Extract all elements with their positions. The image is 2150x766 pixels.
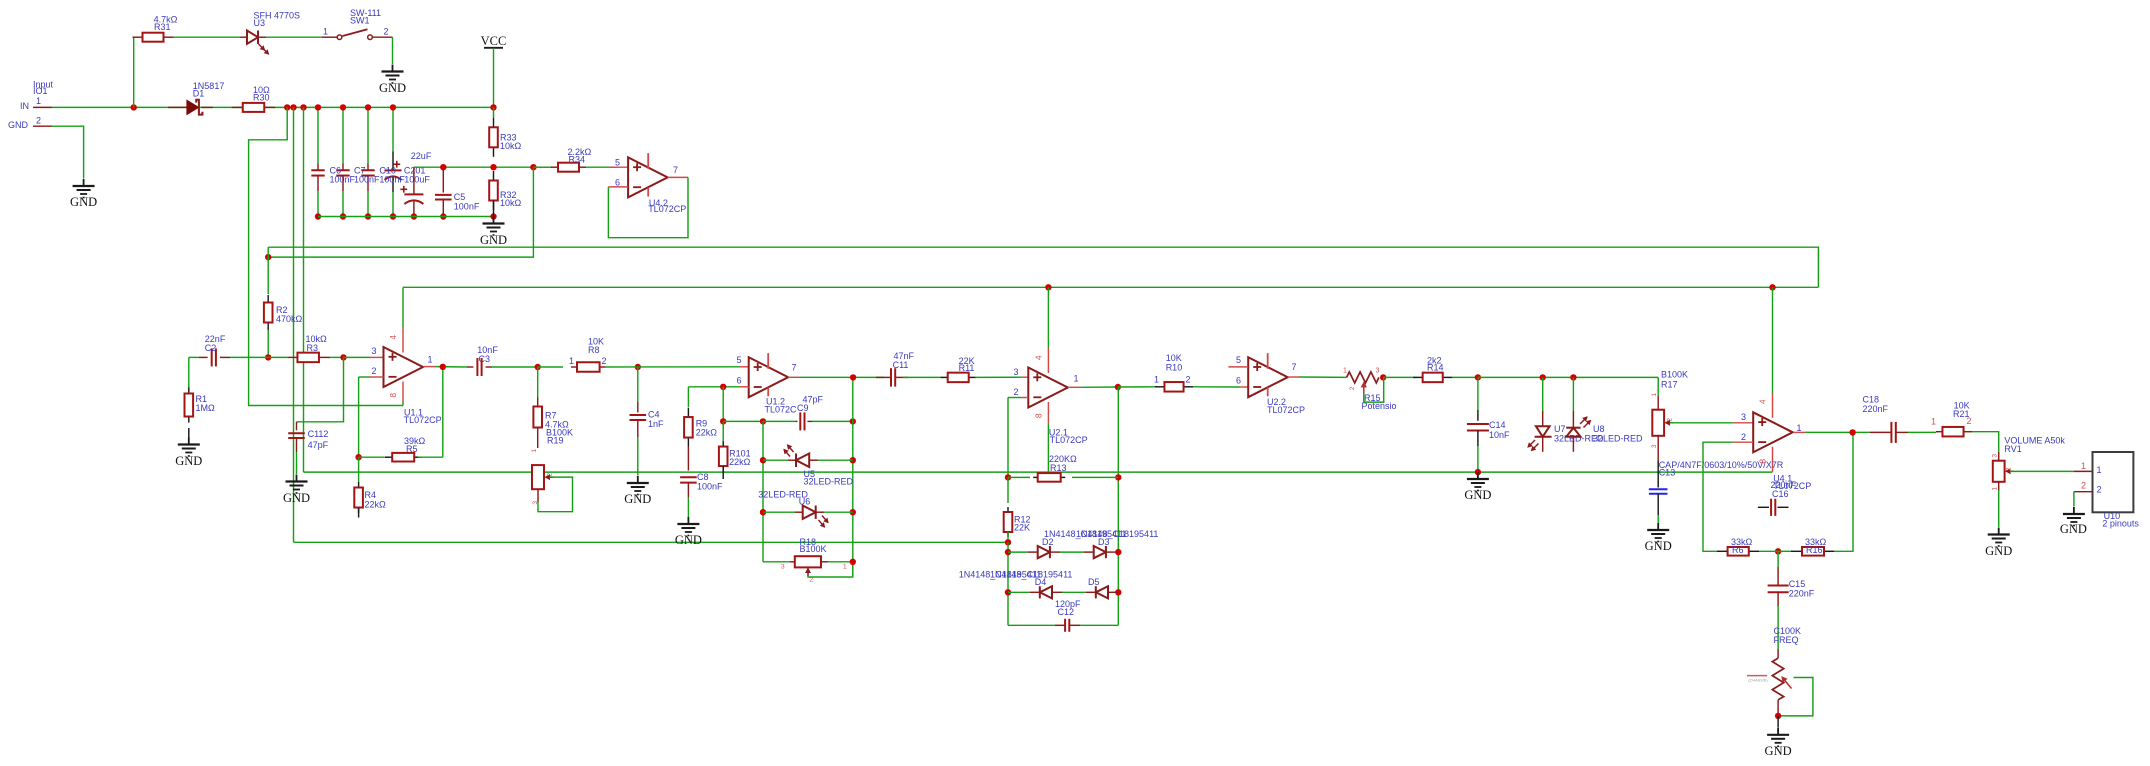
wire U1.1 output	[423, 366, 436, 368]
svg-text:1N4148_C18195411: 1N4148_C18195411	[1076, 529, 1158, 539]
svg-text:5: 5	[1236, 355, 1241, 365]
node junction C9 right	[850, 418, 856, 424]
svg-text:C3: C3	[479, 354, 491, 364]
node junction vref divider	[490, 164, 496, 170]
node junction FREQ bottom	[1775, 713, 1781, 719]
node junction R14 out	[1475, 374, 1481, 380]
svg-text:GND: GND	[70, 195, 97, 209]
capacitor C9 47pF	[795, 420, 797, 422]
wire output down right rail of diode cluster	[1117, 387, 1119, 625]
svg-text:22kΩ: 22kΩ	[729, 457, 751, 467]
wire U2.2 output	[1288, 376, 1299, 378]
op-amp U1.1 TL072CP	[384, 347, 424, 387]
svg-text:2: 2	[372, 366, 377, 376]
svg-text:GND: GND	[1645, 539, 1672, 553]
ground below FREQ pot	[1777, 716, 1779, 728]
wire R8 to U1.2 pin5	[606, 366, 740, 368]
svg-text:2: 2	[2006, 467, 2013, 471]
potentiometer R18 B100K	[763, 561, 790, 563]
op-amp U1.1 pin4 stub to vcc bus	[402, 287, 404, 327]
resistor R10 10K	[1155, 386, 1165, 388]
capacitor C15 220nF	[1777, 551, 1779, 567]
svg-text:1: 1	[323, 27, 328, 37]
node junction diode row2 right	[1115, 589, 1121, 595]
wire U1.2 output	[788, 376, 800, 378]
svg-text:1nF: 1nF	[648, 419, 664, 429]
svg-text:1: 1	[1797, 423, 1802, 433]
ground below C13	[1657, 523, 1659, 530]
svg-text:C16: C16	[1772, 489, 1789, 499]
potentiometer R15 Potensio zigzag	[1347, 372, 1379, 383]
svg-text:D5: D5	[1088, 577, 1100, 587]
svg-text:2: 2	[1014, 387, 1019, 397]
svg-text:R5: R5	[406, 444, 418, 454]
svg-text:2: 2	[602, 356, 607, 366]
svg-text:100nF: 100nF	[330, 175, 356, 185]
resistor R32 10k	[493, 171, 495, 181]
svg-text:32LED-RED: 32LED-RED	[1593, 433, 1643, 443]
svg-text:8: 8	[1034, 413, 1044, 418]
wire IN rail	[52, 106, 494, 108]
resistor R4 22k	[358, 457, 360, 482]
diode D2 1N4148	[1008, 551, 1028, 553]
node junction pin6	[720, 384, 726, 390]
node junction R2 bottom	[265, 354, 271, 360]
node junction rail A	[284, 104, 290, 110]
capacitor C5 100nF	[442, 167, 444, 192]
resistor R30 10ohm	[232, 106, 243, 108]
capacitor C2 22nF	[189, 356, 199, 358]
wire output to R10	[1118, 386, 1157, 388]
node junction vref tap	[530, 164, 536, 170]
svg-text:GND: GND	[2060, 522, 2087, 536]
svg-text:2: 2	[1349, 386, 1356, 390]
wire R11 to U2.1 pin3	[976, 376, 1021, 378]
svg-text:2 pinouts: 2 pinouts	[2102, 518, 2139, 528]
svg-text:10nF: 10nF	[1489, 430, 1510, 440]
svg-text:1: 1	[36, 96, 41, 106]
node junction R101 top	[720, 418, 726, 424]
wire U2.1 output	[1068, 386, 1081, 388]
svg-text:VCC: VCC	[481, 34, 507, 48]
node junction R6 R16 C15	[1775, 548, 1781, 554]
node junction rail at R33	[490, 104, 496, 110]
svg-text:2: 2	[547, 473, 554, 477]
LED U7 32LED-RED	[1540, 374, 1546, 380]
svg-text:2: 2	[1186, 375, 1191, 385]
capacitor C8 100nF	[680, 476, 697, 478]
svg-text:B100K: B100K	[1661, 370, 1688, 380]
svg-text:7: 7	[1292, 362, 1297, 372]
ground at U10 pin2	[2073, 507, 2075, 514]
wire GND bus y472	[304, 471, 1773, 473]
node junction R13 left	[1005, 474, 1011, 480]
wire vertical rail riser x293 down to lower bus	[293, 107, 295, 542]
wire R34 to U4.2 pin5	[586, 166, 618, 168]
svg-text:C9: C9	[797, 403, 809, 413]
op-amp U1.2 TL072CP	[749, 357, 789, 397]
capacitor C10 100nF	[367, 164, 369, 171]
svg-text:3: 3	[372, 346, 377, 356]
svg-text:GND: GND	[1765, 744, 1792, 758]
svg-text:IN: IN	[20, 101, 29, 111]
svg-text:220nF: 220nF	[1863, 404, 1889, 414]
svg-text:C14: C14	[1489, 420, 1506, 430]
svg-text:100nF: 100nF	[379, 175, 405, 185]
svg-text:R17: R17	[1661, 379, 1678, 389]
wire U4.2 output and feedback loop	[668, 176, 688, 178]
LED U5 32LED-RED	[760, 457, 766, 463]
wire U1.2 pin6 net	[688, 386, 740, 388]
node junction C3 out	[535, 364, 541, 370]
resistor R16 33k	[1791, 550, 1802, 552]
resistor R101 22k	[722, 421, 724, 441]
wire R15 wiper loop	[1364, 377, 1384, 402]
svg-text:GND: GND	[8, 120, 29, 130]
wire R31 to LED U3	[174, 36, 241, 38]
svg-text:1: 1	[2081, 461, 2086, 471]
svg-text:C4: C4	[648, 409, 660, 419]
wire U1.1 pin2 from feedback	[359, 376, 370, 378]
svg-text:D4: D4	[1035, 577, 1047, 587]
red rail segments around D1 and R30	[168, 106, 187, 108]
capacitor C201 100uF electrolytic	[385, 169, 402, 171]
potentiometer R17 B100K	[1657, 377, 1659, 396]
resistor R3 10k	[288, 356, 297, 358]
wire input GND pin to ground	[52, 126, 84, 178]
svg-text:R8: R8	[588, 345, 600, 355]
op-amp U4.1 pin4 stub to vcc bus	[1769, 284, 1775, 290]
switch SW1 SW-111	[322, 36, 337, 38]
LED U6 32LED-RED	[760, 509, 766, 515]
wire R18 wiper loop	[807, 569, 809, 577]
svg-text:GND: GND	[480, 233, 507, 247]
svg-text:1: 1	[1154, 375, 1159, 385]
capacitor C11 47nF	[876, 376, 891, 378]
node junction R12 bottom at bus	[1005, 539, 1011, 545]
node junction U1.1 output	[440, 364, 446, 370]
svg-text:10K: 10K	[1166, 353, 1182, 363]
op-amp U2.1 pin4 stub to vcc bus	[1045, 284, 1051, 290]
wire RV1 wiper to U10	[2010, 470, 2074, 472]
wire vref bus y247 long	[268, 247, 1818, 287]
resistor R5 39k	[359, 456, 385, 458]
svg-text:TL072CP: TL072CP	[1267, 405, 1305, 415]
wire R3 node to U1.1 pin3	[344, 356, 371, 358]
svg-text:8: 8	[1758, 459, 1768, 464]
svg-text:220nF: 220nF	[1789, 589, 1815, 599]
node junction at riser to R31	[131, 104, 137, 110]
capacitor C18 220nF	[1870, 431, 1891, 433]
svg-text:R13: R13	[1050, 463, 1067, 473]
wire R10 to U2.2 pin6	[1193, 386, 1240, 388]
capacitor C14 10nF	[1477, 377, 1479, 410]
svg-text:6: 6	[615, 177, 620, 187]
wire C6 top drop	[317, 107, 319, 163]
capacitor C16 220nF floating	[1758, 506, 1769, 508]
svg-text:D2: D2	[1042, 537, 1054, 547]
svg-text:1: 1	[1074, 374, 1079, 384]
LED U8 32LED-RED	[1570, 374, 1576, 380]
wire lower bus y542	[294, 541, 1009, 543]
svg-text:TL072CP: TL072CP	[404, 415, 442, 425]
capacitor C13 4n7 blue	[1657, 436, 1659, 461]
svg-text:R11: R11	[959, 363, 975, 373]
diode D5 1N4148	[1086, 591, 1096, 593]
svg-text:10kΩ: 10kΩ	[500, 198, 522, 208]
op-amp U2.1 TL072CP	[1028, 368, 1068, 408]
svg-text:R19: R19	[547, 436, 564, 446]
resistor R6 33k	[1717, 550, 1728, 552]
wire C10 top drop	[367, 107, 369, 163]
wire pin6 down to C9 level	[722, 387, 724, 422]
wire vref bus y167	[414, 166, 552, 168]
svg-text:4: 4	[388, 335, 398, 340]
svg-text:RV1: RV1	[2004, 444, 2021, 454]
wire R16 up to output node	[1834, 432, 1853, 551]
svg-text:GND: GND	[675, 533, 702, 547]
svg-text:1: 1	[428, 355, 433, 365]
wire U1.1 pin8 feed: rail down-left-down-right	[249, 107, 403, 405]
svg-text:R34: R34	[569, 155, 586, 165]
svg-text:1: 1	[531, 449, 538, 453]
svg-text:TL072C: TL072C	[765, 404, 798, 414]
svg-text:R16: R16	[1806, 545, 1823, 555]
svg-text:3: 3	[1651, 444, 1658, 448]
resistor R8 10K	[571, 366, 577, 368]
connector U10 2 pinouts	[2093, 452, 2134, 512]
node junction U2.1 output	[1115, 384, 1121, 390]
svg-text:IO1: IO1	[33, 86, 48, 96]
svg-text:U3: U3	[254, 18, 266, 28]
node junction R13 right	[1115, 474, 1121, 480]
resistor R9 22k	[687, 387, 689, 408]
svg-text:R3: R3	[307, 343, 319, 353]
svg-text:TL072CP: TL072CP	[648, 204, 686, 214]
node junction diode row2 left	[1005, 589, 1011, 595]
resistor R1 1M	[188, 357, 190, 390]
potentiometer RV1 VOLUME A50k	[1998, 452, 2000, 461]
svg-text:7: 7	[792, 362, 797, 372]
svg-text:1N4148_C18195411: 1N4148_C18195411	[990, 570, 1072, 580]
svg-text:8: 8	[388, 393, 398, 398]
svg-text:7: 7	[673, 165, 678, 175]
wire SW1 to ground	[392, 37, 394, 64]
potentiometer R19 B100K	[532, 465, 544, 489]
wire LED ladder right rail	[852, 377, 854, 577]
capacitor C3 10nF	[467, 366, 473, 368]
wire R19 wiper loop	[538, 477, 573, 512]
node junction diode row1 right	[1115, 549, 1121, 555]
svg-text:GND: GND	[624, 492, 651, 506]
svg-text:2: 2	[1967, 416, 1972, 426]
op-amp U4.1 TL072CP	[1753, 412, 1793, 452]
wire R21 to RV1	[1972, 432, 1999, 452]
wire U10 pin2 to ground	[2074, 491, 2093, 493]
svg-text:C12: C12	[1058, 607, 1075, 617]
node junction C14 at gnd bus	[1475, 469, 1481, 475]
ground below C8	[687, 517, 689, 524]
svg-text:1: 1	[569, 356, 574, 366]
op-amp U4.2 TL072CP	[628, 157, 668, 197]
resistor R33 10k	[493, 107, 495, 118]
svg-text:C13: C13	[1659, 468, 1676, 478]
svg-text:1: 1	[2097, 465, 2102, 475]
diode D3 1N4148	[1084, 551, 1094, 553]
svg-text:D3: D3	[1098, 537, 1110, 547]
svg-text:3: 3	[1992, 454, 1999, 458]
resistor R2 470k	[267, 247, 269, 294]
svg-text:100nF: 100nF	[697, 481, 723, 491]
node junction R5 left	[355, 454, 361, 460]
op-amp U1.1 pin8 stub	[402, 382, 404, 402]
svg-text:SW1: SW1	[350, 15, 370, 25]
node junction U1.2 output	[850, 374, 856, 380]
svg-text:470kΩ: 470kΩ	[276, 314, 303, 324]
node junction R8 out	[635, 364, 641, 370]
svg-text:C11: C11	[893, 360, 909, 370]
node junction R15 right	[1380, 374, 1386, 380]
wire U2.2 pin5 stub	[1228, 366, 1248, 368]
svg-text:TL072CP: TL072CP	[1050, 435, 1088, 445]
resistor R7 4.7k	[537, 367, 539, 398]
svg-text:(CHASSIS): (CHASSIS)	[1748, 678, 1768, 682]
op-amp U2.1 pin8 stub down	[1047, 402, 1049, 424]
wire FREQ wiper loop	[1778, 678, 1813, 716]
node junction U4.1 output	[1849, 429, 1855, 435]
svg-text:R6: R6	[1732, 545, 1744, 555]
ground below SW1	[392, 65, 394, 72]
svg-text:22K: 22K	[1014, 523, 1030, 533]
svg-text:32LED-RED: 32LED-RED	[804, 476, 854, 486]
svg-text:C2: C2	[205, 343, 217, 353]
svg-text:47pF: 47pF	[308, 440, 329, 450]
ground input GND	[83, 179, 85, 186]
wire vref tap down and left	[268, 167, 533, 257]
svg-text:1: 1	[1992, 487, 1999, 491]
svg-text:100nF: 100nF	[454, 201, 480, 211]
svg-text:GND: GND	[175, 454, 202, 468]
svg-text:FREQ: FREQ	[1774, 635, 1799, 645]
wire U3 to SW1	[266, 36, 322, 38]
svg-text:2: 2	[384, 27, 389, 37]
wire node to C112	[297, 357, 344, 421]
LED U3 SFH 4770S	[240, 36, 247, 38]
svg-text:6: 6	[1236, 376, 1241, 386]
wire vertical rail riser x303 down to gnd bus	[303, 107, 305, 472]
resistor R31 4.7k	[133, 36, 143, 38]
capacitor C4 1nF	[637, 367, 639, 402]
wire U4.1 pin2 feedback loop	[1734, 441, 1754, 443]
svg-text:R10: R10	[1166, 362, 1183, 372]
node junction vref at R2 riser	[265, 254, 271, 260]
svg-text:2: 2	[1741, 432, 1746, 442]
svg-text:3: 3	[1014, 367, 1019, 377]
wire R17 wiper to U4.1 pin3	[1670, 422, 1734, 424]
svg-text:3: 3	[1741, 412, 1746, 422]
capacitor C12 120pF	[1008, 624, 1055, 626]
ground below R1	[188, 438, 190, 445]
svg-text:GND: GND	[283, 491, 310, 505]
svg-text:C112: C112	[308, 429, 329, 439]
node junction diode row1 left	[1005, 549, 1011, 555]
svg-text:R14: R14	[1427, 363, 1444, 373]
node junction rail C	[300, 104, 306, 110]
svg-text:GND: GND	[1985, 544, 2012, 558]
svg-text:D1: D1	[193, 89, 205, 99]
op-amp U2.2 TL072CP	[1248, 357, 1288, 397]
svg-text:C15: C15	[1789, 579, 1806, 589]
wire U4.1 output	[1793, 431, 1805, 433]
svg-text:22uF: 22uF	[411, 151, 432, 161]
svg-text:R4: R4	[365, 490, 377, 500]
ground below C4	[637, 476, 639, 483]
svg-text:5: 5	[615, 157, 620, 167]
svg-text:1: 1	[843, 564, 847, 571]
svg-text:2: 2	[1667, 418, 1674, 422]
svg-text:GND: GND	[379, 81, 406, 95]
svg-text:4: 4	[1758, 399, 1768, 404]
svg-text:6: 6	[737, 375, 742, 385]
capacitor 22uF electrolytic	[413, 167, 415, 194]
svg-text:R31: R31	[154, 22, 171, 32]
node junction R3 output	[340, 354, 346, 360]
svg-text:1: 1	[1343, 368, 1347, 375]
wire C9 feedback row	[723, 420, 763, 422]
resistor R34 2.2k	[533, 166, 552, 168]
capacitor C112 47pF	[296, 422, 298, 431]
svg-text:3: 3	[781, 564, 785, 571]
svg-text:C8: C8	[697, 472, 709, 482]
wire C7 top drop	[342, 107, 344, 163]
resistor R12 22K	[1007, 477, 1009, 503]
diode D4 1N4148	[1008, 591, 1030, 593]
svg-text:2: 2	[2081, 481, 2086, 491]
wire signal bus to volume pot	[1478, 376, 1658, 378]
wire R5 to U1.1 output	[442, 367, 444, 458]
wire U2.1 pin2 feedback	[1008, 397, 1021, 399]
diode D1 1N5817	[187, 101, 198, 115]
svg-text:22kΩ: 22kΩ	[365, 499, 387, 509]
wire C3 node to R8	[538, 366, 563, 368]
wire R2 node to R3	[268, 356, 288, 358]
svg-text:1: 1	[1931, 417, 1936, 427]
resistor R21 10K	[1936, 431, 1942, 433]
ground below RV1	[1998, 528, 2000, 535]
svg-text:GND: GND	[1464, 488, 1491, 502]
svg-text:4: 4	[1034, 355, 1044, 360]
svg-text:2: 2	[36, 116, 41, 126]
ground below C112	[296, 475, 298, 482]
wire vcc bus y287 long	[403, 286, 1818, 288]
node junction C9 left	[760, 418, 766, 424]
svg-text:1MΩ: 1MΩ	[196, 403, 216, 413]
svg-text:22kΩ: 22kΩ	[696, 427, 718, 437]
svg-text:10kΩ: 10kΩ	[500, 141, 522, 151]
svg-text:100uF: 100uF	[404, 175, 430, 185]
svg-text:100nF: 100nF	[354, 175, 380, 185]
svg-text:2: 2	[2097, 485, 2102, 495]
resistor R13 220K	[1008, 476, 1030, 478]
wire left diode rail	[1007, 542, 1009, 625]
capacitor C7 100nF	[342, 164, 344, 171]
op-amp U4.1 pin8 stub to gnd bus	[1772, 447, 1774, 472]
ground at gnd bus	[1477, 472, 1479, 479]
node junction rail B	[290, 104, 296, 110]
capacitor C6 100nF	[317, 164, 319, 171]
svg-text:3: 3	[1376, 368, 1380, 375]
wire LED ladder left rail	[762, 421, 764, 561]
